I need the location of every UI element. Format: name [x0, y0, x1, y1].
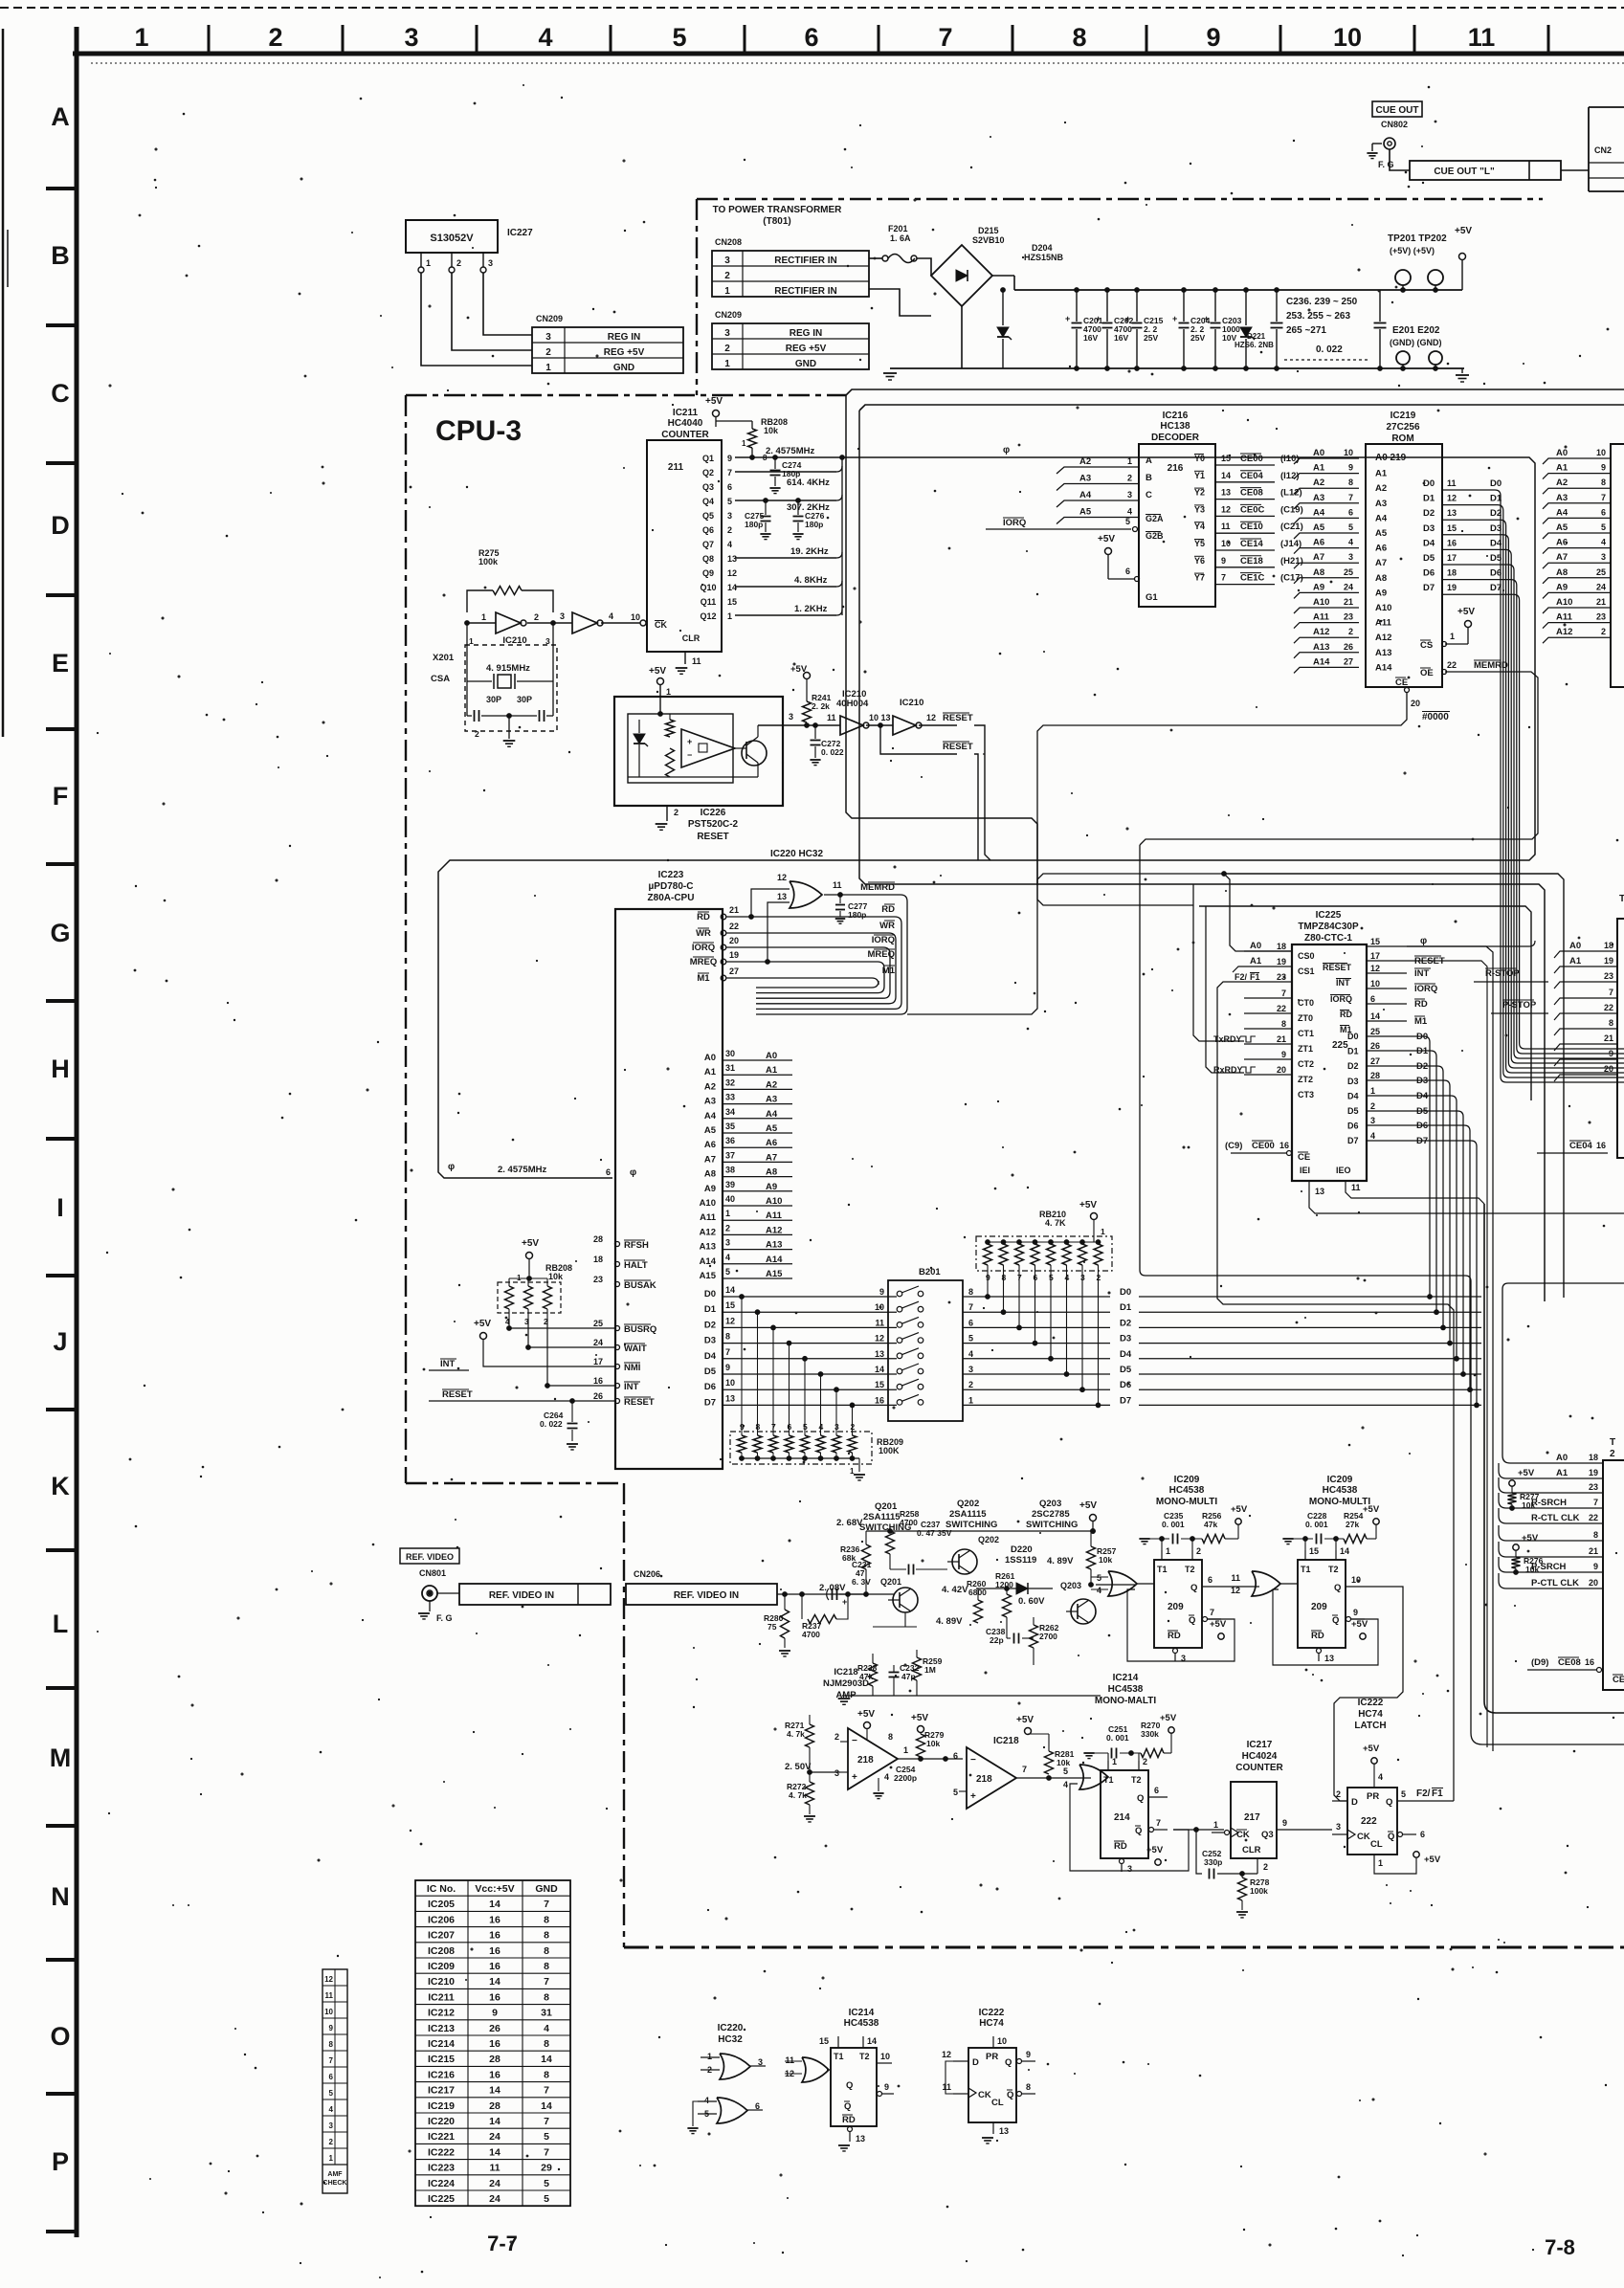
svg-text:(+5V) (+5V): (+5V) (+5V) — [1390, 246, 1435, 255]
wires pullups to control pins — [509, 1327, 615, 1329]
svg-text:IC214: IC214 — [428, 2038, 455, 2050]
svg-text:CE08: CE08 — [1240, 488, 1263, 499]
svg-text:0. 60V: 0. 60V — [1018, 1596, 1045, 1607]
svg-text:10k: 10k — [1522, 1500, 1535, 1510]
svg-text:13: 13 — [875, 1349, 884, 1359]
svg-text:2: 2 — [1336, 1789, 1341, 1799]
svg-text:IC220: IC220 — [718, 2023, 744, 2033]
svg-text:28: 28 — [489, 2100, 501, 2112]
svg-text:HALT: HALT — [624, 1260, 648, 1271]
svg-text:16: 16 — [1447, 538, 1457, 547]
svg-text:Q203: Q203 — [1039, 1499, 1061, 1509]
svg-text:REG IN: REG IN — [608, 332, 640, 343]
svg-text:RD: RD — [881, 904, 895, 915]
svg-text:φ: φ — [1420, 936, 1427, 946]
svg-text:4. 8KHz: 4. 8KHz — [794, 575, 828, 586]
svg-text:26: 26 — [1370, 1041, 1380, 1051]
svg-text:2SA1115: 2SA1115 — [949, 1509, 987, 1520]
svg-text:−: − — [852, 1736, 857, 1746]
svg-text:+5V: +5V — [1518, 1468, 1535, 1478]
svg-text:2: 2 — [1610, 1449, 1615, 1459]
svg-text:IC214: IC214 — [1113, 1673, 1139, 1683]
svg-text:2: 2 — [475, 729, 479, 739]
svg-text:A7: A7 — [1313, 552, 1324, 563]
svg-text:3: 3 — [545, 332, 551, 343]
svg-text:D3: D3 — [1120, 1334, 1131, 1344]
svg-text:MONO-MULTI: MONO-MULTI — [1309, 1497, 1370, 1507]
svg-text:0. 001: 0. 001 — [1162, 1520, 1185, 1529]
wire RESET to bus — [974, 725, 990, 860]
svg-text:4: 4 — [1063, 1780, 1068, 1789]
capacitor C236 right symbol — [1379, 290, 1381, 322]
mono-multi IC209 first — [1154, 1560, 1202, 1648]
svg-text:IC216: IC216 — [1163, 411, 1189, 421]
svg-text:20: 20 — [1589, 1578, 1598, 1588]
svg-text:IC225: IC225 — [428, 2193, 455, 2205]
svg-text:7: 7 — [938, 23, 952, 52]
svg-text:217: 217 — [1244, 1812, 1260, 1823]
svg-text:A1: A1 — [1375, 469, 1388, 479]
svg-text:M1: M1 — [1414, 1016, 1428, 1027]
svg-text:RD: RD — [1114, 1841, 1127, 1852]
svg-text:A11: A11 — [1556, 612, 1573, 623]
svg-text:1. 2KHz: 1. 2KHz — [794, 604, 828, 614]
svg-text:7: 7 — [544, 1976, 549, 1988]
svg-text:1: 1 — [666, 687, 671, 697]
svg-text:28: 28 — [593, 1234, 603, 1244]
svg-text:A2: A2 — [1079, 456, 1091, 467]
svg-text:CUE OUT: CUE OUT — [1376, 105, 1419, 116]
svg-text:26: 26 — [489, 2023, 501, 2034]
svg-text:330p: 330p — [1204, 1857, 1222, 1867]
latch IC222 box — [1347, 1788, 1397, 1855]
wire bus rail lower — [859, 405, 1624, 411]
svg-text:6: 6 — [1348, 507, 1353, 517]
svg-text:12: 12 — [324, 1975, 333, 1984]
svg-text:RD: RD — [697, 912, 710, 922]
svg-text:8: 8 — [1593, 1530, 1598, 1540]
svg-text:8: 8 — [544, 1930, 549, 1942]
svg-text:10: 10 — [1370, 979, 1380, 989]
svg-text:6: 6 — [1601, 507, 1606, 517]
svg-text:D5: D5 — [1347, 1106, 1359, 1116]
svg-text:19: 19 — [1604, 956, 1613, 966]
wire A0 feed of right CTC block — [1502, 1283, 1624, 1463]
ground rail — [890, 367, 1464, 369]
svg-text:IC227: IC227 — [507, 228, 533, 238]
svg-text:A6: A6 — [1375, 544, 1387, 554]
node REF.VIDEO label — [400, 1548, 459, 1564]
svg-text:D7: D7 — [704, 1397, 716, 1408]
svg-text:2. 4575MHz: 2. 4575MHz — [498, 1165, 546, 1175]
svg-text:2: 2 — [1601, 627, 1606, 636]
svg-text:CN209: CN209 — [536, 314, 563, 323]
pin6 Qbar of IC222 — [1398, 1833, 1403, 1837]
svg-text:TO POWER TRANSFORMER: TO POWER TRANSFORMER — [713, 205, 843, 215]
svg-text:CE18: CE18 — [1240, 556, 1263, 566]
svg-text:8: 8 — [544, 2038, 549, 2050]
svg-text:D2: D2 — [1347, 1061, 1359, 1071]
svg-text:IC225: IC225 — [1316, 910, 1342, 921]
svg-text:IORQ: IORQ — [1003, 518, 1026, 528]
svg-text:F2/: F2/ — [1416, 1788, 1431, 1799]
svg-text:+5V: +5V — [649, 666, 666, 677]
svg-text:2: 2 — [725, 1223, 730, 1233]
svg-text:2: 2 — [534, 612, 539, 622]
pin1 of IC217 — [1225, 1831, 1230, 1835]
svg-text:12: 12 — [926, 713, 936, 722]
wire loop IC214 — [1070, 1784, 1189, 1871]
svg-text:PST520C-2: PST520C-2 — [688, 819, 739, 830]
svg-text:100k: 100k — [1250, 1886, 1268, 1896]
svg-text:6: 6 — [727, 482, 732, 492]
mono-multi IC209 second — [1298, 1560, 1346, 1648]
svg-text:18: 18 — [1589, 1453, 1598, 1462]
svg-text:(D9): (D9) — [1531, 1657, 1548, 1668]
capacitor C274 180p — [774, 457, 776, 469]
svg-text:D0: D0 — [1490, 478, 1502, 489]
svg-text:22p: 22p — [990, 1635, 1004, 1645]
svg-text:F. G: F. G — [436, 1613, 453, 1623]
svg-text:RESET: RESET — [943, 713, 973, 723]
svg-text:9: 9 — [884, 2082, 889, 2092]
svg-text:10: 10 — [1596, 448, 1606, 457]
svg-text:IC206: IC206 — [428, 1914, 455, 1925]
svg-text:A5: A5 — [766, 1123, 778, 1134]
svg-text:Q4: Q4 — [702, 497, 714, 506]
svg-text:4: 4 — [1370, 1131, 1375, 1141]
svg-text:222: 222 — [1361, 1816, 1377, 1827]
svg-text:+5V: +5V — [1146, 1845, 1164, 1855]
wire spare latch inputs — [945, 2061, 953, 2094]
svg-text:Q1: Q1 — [702, 454, 714, 463]
svg-text:HC4538: HC4538 — [844, 2018, 879, 2029]
svg-text:D6: D6 — [1120, 1380, 1131, 1390]
svg-text:CN802: CN802 — [1381, 120, 1408, 129]
svg-text:16: 16 — [593, 1376, 603, 1386]
svg-text:2: 2 — [724, 271, 730, 281]
svg-text:5: 5 — [544, 2193, 549, 2205]
svg-text:7-8: 7-8 — [1545, 2235, 1575, 2259]
wire IC214 Qbar to C252 — [1173, 1829, 1224, 1831]
svg-text:15: 15 — [1447, 523, 1457, 533]
svg-text:Z80A-CPU: Z80A-CPU — [648, 893, 695, 903]
svg-text:ZT0: ZT0 — [1298, 1013, 1313, 1023]
svg-text:+: + — [842, 1597, 847, 1607]
svg-text:CE08: CE08 — [1558, 1657, 1581, 1668]
svg-text:27k: 27k — [1346, 1520, 1359, 1529]
svg-text:10: 10 — [997, 2036, 1007, 2046]
wire OR input 13 from MREQ — [768, 902, 790, 962]
svg-text:3: 3 — [329, 2121, 334, 2130]
svg-text:1: 1 — [426, 258, 431, 268]
svg-text:14: 14 — [541, 2100, 552, 2112]
svg-text:4: 4 — [538, 23, 552, 52]
svg-text:D4: D4 — [1347, 1091, 1359, 1100]
bus wires MEMRD RD WR IORQ MREQ M1 nested loops — [756, 895, 907, 1014]
svg-text:12: 12 — [727, 568, 737, 578]
svg-text:Q7: Q7 — [702, 540, 714, 549]
svg-text:D7: D7 — [1347, 1136, 1359, 1145]
svg-text:P-STOP: P-STOP — [1502, 1000, 1537, 1011]
svg-text:HC74: HC74 — [1358, 1709, 1383, 1720]
svg-text:21: 21 — [1604, 1033, 1613, 1043]
svg-text:R-STOP: R-STOP — [1485, 968, 1520, 979]
svg-text:A5: A5 — [704, 1125, 717, 1136]
svg-text:CK: CK — [1236, 1830, 1250, 1840]
svg-text:11: 11 — [1468, 23, 1496, 52]
svg-text:Q203: Q203 — [1060, 1581, 1081, 1590]
svg-text:Q: Q — [1135, 1826, 1142, 1836]
svg-text:HC4538: HC4538 — [1108, 1684, 1144, 1695]
svg-text:SWITCHING: SWITCHING — [1026, 1520, 1078, 1530]
svg-text:9: 9 — [1601, 463, 1606, 473]
svg-text:5: 5 — [544, 2178, 549, 2189]
connector box REF VIDEO IN right — [626, 1584, 777, 1605]
svg-text:40H004: 40H004 — [836, 699, 869, 709]
inverter IC210 first — [496, 612, 521, 633]
svg-text:CUE OUT "L": CUE OUT "L" — [1434, 167, 1495, 177]
address input rows of IC219 — [1294, 458, 1359, 464]
svg-text:3: 3 — [724, 255, 730, 266]
svg-text:D2: D2 — [1416, 1061, 1428, 1072]
svg-text:Q5: Q5 — [702, 511, 714, 521]
svg-text:D1: D1 — [1416, 1046, 1429, 1056]
svg-text:IORQ: IORQ — [1414, 984, 1437, 994]
svg-text:11: 11 — [942, 2082, 951, 2092]
svg-text:A11: A11 — [700, 1212, 717, 1223]
svg-text:A0: A0 — [704, 1053, 716, 1063]
svg-text:CT3: CT3 — [1298, 1090, 1314, 1100]
svg-text:CE04: CE04 — [1569, 1141, 1592, 1151]
svg-text:A14: A14 — [700, 1256, 717, 1267]
svg-text:7: 7 — [725, 1347, 730, 1357]
svg-text:7: 7 — [544, 2116, 549, 2127]
svg-text:3: 3 — [968, 1365, 973, 1374]
svg-text:D6: D6 — [1490, 568, 1502, 579]
svg-text:614. 4KHz: 614. 4KHz — [787, 478, 830, 488]
svg-text:7: 7 — [1593, 1498, 1598, 1507]
svg-text:Q: Q — [846, 2080, 853, 2091]
wire long horizontal buses — [1199, 906, 1531, 1100]
svg-text:ROM: ROM — [1391, 433, 1413, 444]
svg-text:9: 9 — [329, 2024, 334, 2033]
svg-text:A0 219: A0 219 — [1375, 453, 1407, 463]
svg-text:MREQ: MREQ — [868, 949, 896, 960]
svg-text:2: 2 — [674, 808, 679, 817]
svg-text:16V: 16V — [1114, 333, 1128, 343]
table IC power pins — [415, 1880, 570, 2206]
svg-text:19: 19 — [1277, 957, 1286, 966]
svg-text:2: 2 — [545, 347, 551, 358]
svg-text:2: 2 — [1263, 1862, 1268, 1872]
svg-text:A1: A1 — [1250, 956, 1262, 966]
zener diode after bridge — [1002, 290, 1004, 325]
svg-text:Q: Q — [1137, 1793, 1144, 1804]
svg-text:12: 12 — [1370, 964, 1380, 973]
svg-text:2: 2 — [1348, 627, 1353, 636]
capacitor C275 180p — [765, 500, 767, 515]
svg-text:MEMRD: MEMRD — [1474, 660, 1508, 671]
svg-text:T2: T2 — [1185, 1565, 1195, 1574]
svg-text:A6: A6 — [704, 1140, 716, 1150]
svg-text:A3: A3 — [766, 1095, 777, 1105]
svg-text:16V: 16V — [1083, 333, 1098, 343]
svg-text:CS0: CS0 — [1298, 951, 1315, 961]
svg-text:IC226: IC226 — [701, 808, 726, 818]
svg-text:23: 23 — [1344, 612, 1353, 622]
svg-text:11: 11 — [827, 713, 836, 722]
pin2 ground of IC226 — [666, 806, 668, 821]
svg-text:25V: 25V — [1190, 333, 1205, 343]
svg-text:9: 9 — [492, 2008, 498, 2019]
ground bus analog — [842, 1695, 1101, 1697]
svg-text:39: 39 — [725, 1180, 735, 1189]
svg-text:Q: Q — [844, 2101, 851, 2112]
svg-text:3: 3 — [1336, 1822, 1341, 1832]
svg-text:INT: INT — [1414, 968, 1430, 979]
svg-text:G: G — [50, 919, 70, 947]
svg-text:IC217: IC217 — [428, 2085, 455, 2097]
svg-text:IORQ: IORQ — [1330, 994, 1352, 1004]
svg-text:IC210: IC210 — [502, 635, 526, 646]
svg-text:D1: D1 — [1347, 1047, 1359, 1056]
svg-text:5: 5 — [953, 1788, 958, 1797]
svg-text:HC32: HC32 — [718, 2034, 743, 2045]
svg-text:N: N — [51, 1882, 70, 1911]
resistors inside IC226 — [666, 720, 675, 737]
svg-text:218: 218 — [857, 1755, 874, 1766]
svg-text:47p: 47p — [901, 1672, 916, 1681]
or-gate at IC214 spare — [802, 2057, 829, 2082]
svg-text:RESET: RESET — [624, 1397, 655, 1408]
svg-text:IC223: IC223 — [658, 870, 684, 880]
svg-text:A5: A5 — [1375, 528, 1388, 539]
svg-text:5: 5 — [1125, 517, 1130, 526]
pin CK input of IC211 — [640, 620, 646, 626]
svg-text:1: 1 — [329, 2154, 334, 2163]
svg-text:RECTIFIER IN: RECTIFIER IN — [774, 255, 837, 266]
svg-text:14: 14 — [1340, 1546, 1349, 1556]
svg-text:0. 022: 0. 022 — [540, 1419, 563, 1429]
svg-text:D0: D0 — [1120, 1287, 1131, 1298]
svg-text:Q202: Q202 — [978, 1535, 999, 1544]
svg-text:A0: A0 — [1556, 448, 1568, 458]
svg-text:16: 16 — [489, 1930, 501, 1942]
svg-text:Y2: Y2 — [1194, 488, 1205, 498]
svg-text:1: 1 — [742, 439, 746, 448]
svg-text:30: 30 — [725, 1049, 735, 1058]
svg-text:A12: A12 — [700, 1227, 716, 1237]
svg-text:4: 4 — [1378, 1772, 1383, 1782]
svg-text:8: 8 — [329, 2040, 334, 2049]
svg-text:IC219: IC219 — [1390, 411, 1416, 421]
svg-text:31: 31 — [541, 2008, 552, 2019]
left pin rows of IC225 — [1244, 950, 1292, 952]
capacitor C204 2. 2 25V — [1183, 290, 1185, 322]
svg-text:30P: 30P — [517, 695, 532, 704]
svg-text:1: 1 — [903, 1745, 908, 1755]
svg-text:8: 8 — [544, 2069, 549, 2080]
svg-text:A6: A6 — [1313, 538, 1324, 548]
svg-text:D: D — [51, 511, 70, 540]
svg-text:LATCH: LATCH — [1354, 1721, 1386, 1731]
wire RESET net lower — [880, 725, 957, 754]
svg-text:A1: A1 — [1569, 956, 1582, 966]
wire bus rail upper — [846, 389, 1624, 395]
svg-text:Y1: Y1 — [1194, 471, 1205, 480]
svg-text:IC209: IC209 — [428, 1961, 455, 1972]
svg-text:MONO-MULTI: MONO-MULTI — [1156, 1497, 1217, 1507]
svg-text:12: 12 — [875, 1334, 884, 1344]
svg-text:IC209: IC209 — [1174, 1475, 1200, 1485]
svg-text:IC221: IC221 — [428, 2131, 455, 2143]
svg-text:2: 2 — [329, 2138, 334, 2146]
svg-text:11: 11 — [1221, 522, 1231, 531]
counter IC217 box — [1231, 1782, 1277, 1858]
svg-text:A7: A7 — [1556, 552, 1568, 563]
svg-text:7: 7 — [544, 2085, 549, 2097]
svg-text:Q: Q — [1007, 2090, 1013, 2100]
svg-text:1: 1 — [1213, 1820, 1218, 1830]
connector box REF VIDEO IN left — [459, 1584, 611, 1605]
svg-text:IC212: IC212 — [428, 2008, 455, 2019]
svg-text:D220: D220 — [1011, 1544, 1033, 1555]
svg-text:8: 8 — [1026, 2082, 1031, 2092]
grid row ticks — [46, 187, 77, 190]
svg-text:Y7: Y7 — [1194, 573, 1205, 583]
svg-text:3: 3 — [404, 23, 418, 52]
svg-text:F. G: F. G — [1378, 160, 1394, 169]
svg-text:IC207: IC207 — [428, 1930, 455, 1942]
svg-text:CE: CE — [1613, 1675, 1624, 1685]
svg-text:PR: PR — [1367, 1791, 1379, 1802]
svg-text:A8: A8 — [704, 1169, 716, 1180]
svg-text:IC220: IC220 — [428, 2116, 455, 2127]
svg-text:IEO: IEO — [1336, 1166, 1351, 1175]
data bus D0-D7 wires to right — [963, 1296, 1110, 1298]
wire Q9 4.8KHz — [735, 586, 836, 588]
svg-text:5: 5 — [1063, 1766, 1068, 1776]
svg-text:A10: A10 — [700, 1198, 716, 1209]
svg-text:CHECK: CHECK — [323, 2180, 347, 2187]
svg-text:8: 8 — [544, 1991, 549, 2003]
svg-text:11: 11 — [1447, 478, 1457, 488]
svg-text:20: 20 — [1604, 1064, 1613, 1074]
svg-text:0. 022: 0. 022 — [1316, 344, 1343, 355]
svg-text:14: 14 — [541, 2054, 552, 2065]
svg-text:IC215: IC215 — [428, 2054, 455, 2065]
capacitor C202 4700 16V — [1106, 290, 1108, 322]
svg-text:13: 13 — [1221, 488, 1231, 498]
reset IC226 PST520C-2 — [614, 697, 783, 806]
svg-text:16: 16 — [489, 2069, 501, 2080]
svg-text:7: 7 — [329, 2056, 334, 2065]
svg-text:1M: 1M — [924, 1665, 936, 1675]
svg-text:HC4040: HC4040 — [668, 418, 703, 429]
svg-text:2: 2 — [1127, 474, 1132, 483]
svg-text:10: 10 — [880, 2052, 890, 2061]
svg-text:28: 28 — [489, 2054, 501, 2065]
svg-text:A4: A4 — [1556, 507, 1568, 518]
svg-text:2: 2 — [1196, 1546, 1201, 1556]
svg-text:INT: INT — [624, 1382, 639, 1392]
svg-text:6: 6 — [1208, 1575, 1212, 1585]
svg-text:Q12: Q12 — [700, 611, 716, 621]
pin3 CK of IC222 — [1332, 1833, 1347, 1835]
svg-text:CPU-3: CPU-3 — [435, 415, 522, 447]
svg-text:12: 12 — [1221, 504, 1231, 514]
